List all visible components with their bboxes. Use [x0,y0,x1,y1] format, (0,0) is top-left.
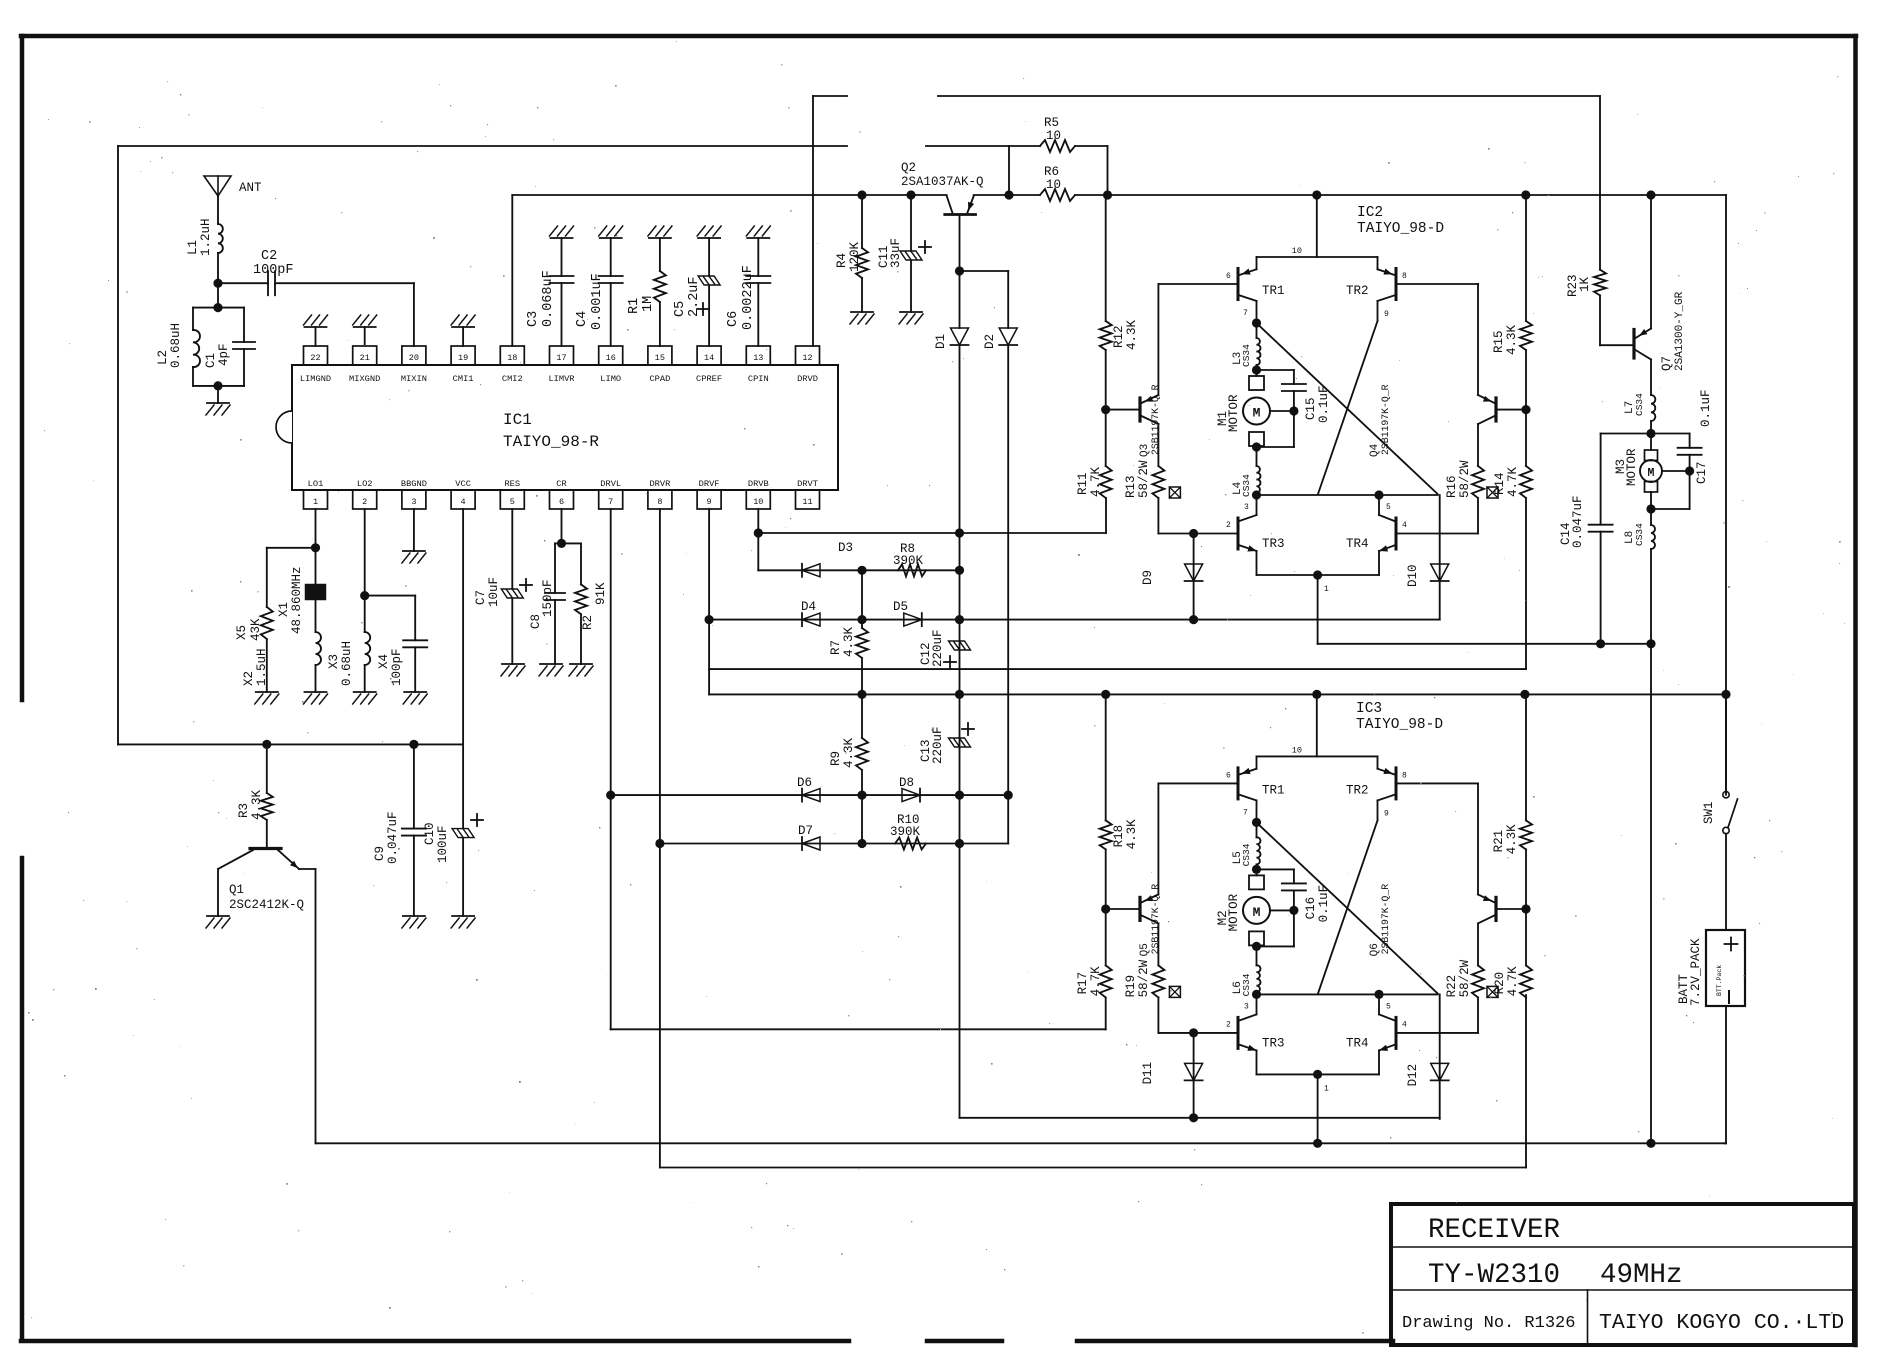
svg-text:49MHz: 49MHz [1600,1260,1683,1291]
svg-text:D9: D9 [1141,570,1155,585]
svg-text:TR3: TR3 [1262,537,1285,551]
svg-text:2: 2 [1226,521,1231,530]
svg-text:CS34: CS34 [1241,973,1252,996]
svg-text:C2: C2 [261,249,277,264]
svg-text:0.047uF: 0.047uF [386,811,400,864]
svg-text:4: 4 [461,497,466,507]
svg-text:R2: R2 [581,615,595,630]
svg-text:BBGND: BBGND [401,479,427,489]
svg-text:4: 4 [1402,1020,1407,1029]
svg-text:TR3: TR3 [1262,1036,1285,1050]
svg-text:13: 13 [753,353,763,363]
svg-text:58/2W: 58/2W [1458,959,1472,997]
svg-text:R1: R1 [627,298,642,314]
svg-text:R17: R17 [1076,972,1090,995]
svg-text:M: M [1648,467,1655,480]
svg-text:R9: R9 [829,751,843,766]
svg-text:R21: R21 [1492,830,1506,853]
svg-text:4.3K: 4.3K [842,737,856,768]
svg-text:MOTOR: MOTOR [1625,448,1639,486]
svg-text:100uF: 100uF [436,825,450,863]
svg-text:CPIN: CPIN [748,374,769,384]
svg-text:9: 9 [707,497,712,507]
svg-text:4.3K: 4.3K [250,789,264,820]
svg-text:4pF: 4pF [217,343,231,366]
svg-text:IC1: IC1 [503,411,532,429]
svg-text:4.7K: 4.7K [1089,966,1103,997]
svg-text:Q2: Q2 [901,161,916,175]
svg-text:LIMO: LIMO [600,374,621,384]
svg-text:19: 19 [458,353,468,363]
svg-text:10: 10 [753,497,763,507]
svg-text:7: 7 [1243,808,1248,817]
svg-text:CS34: CS34 [1241,474,1252,497]
svg-text:220uF: 220uF [931,629,945,667]
svg-text:DRVT: DRVT [797,479,818,489]
svg-text:4.7K: 4.7K [1506,466,1520,497]
svg-text:LO1: LO1 [308,479,324,489]
svg-text:2: 2 [362,497,367,507]
svg-text:0.68uH: 0.68uH [340,641,354,686]
svg-text:DRVL: DRVL [600,479,621,489]
svg-text:Q1: Q1 [229,883,244,897]
svg-text:R15: R15 [1492,330,1506,353]
svg-text:CMI1: CMI1 [453,374,474,384]
svg-text:D12: D12 [1406,1064,1420,1087]
svg-text:4.3K: 4.3K [1505,824,1519,855]
svg-text:1: 1 [313,497,318,507]
svg-text:10: 10 [1046,129,1061,143]
svg-text:C1: C1 [204,353,218,368]
svg-text:R18: R18 [1112,825,1126,848]
svg-text:8: 8 [1402,272,1407,281]
svg-text:VCC: VCC [455,479,471,489]
svg-text:1M: 1M [641,296,656,312]
svg-text:0.68uH: 0.68uH [169,323,183,368]
svg-text:Q7: Q7 [1660,356,1674,371]
svg-text:R22: R22 [1445,975,1459,998]
svg-text:C17: C17 [1695,461,1709,484]
svg-text:D3: D3 [838,541,853,555]
svg-text:14: 14 [704,353,714,363]
svg-text:CR: CR [556,479,566,489]
svg-text:X2: X2 [242,671,256,686]
svg-text:R14: R14 [1493,472,1507,495]
svg-text:D1: D1 [934,334,948,349]
svg-text:D7: D7 [798,824,813,838]
svg-text:0.047uF: 0.047uF [1571,495,1585,548]
svg-text:11: 11 [802,497,812,507]
svg-text:R5: R5 [1044,116,1059,130]
svg-text:R6: R6 [1044,165,1059,179]
svg-text:LIMVR: LIMVR [548,374,574,384]
svg-text:6: 6 [1226,771,1231,780]
svg-text:0.0022uF: 0.0022uF [741,265,756,330]
svg-text:M: M [1253,905,1261,920]
svg-text:10uF: 10uF [487,577,501,607]
svg-text:58/2W: 58/2W [1137,460,1151,498]
svg-text:2.2uF: 2.2uF [687,276,702,317]
svg-text:220uF: 220uF [931,726,945,764]
svg-text:SW1: SW1 [1702,801,1716,824]
svg-text:C15: C15 [1304,397,1318,420]
svg-text:D10: D10 [1406,564,1420,587]
svg-text:C10: C10 [423,822,437,845]
svg-text:4.3K: 4.3K [1505,324,1519,355]
svg-text:TR1: TR1 [1262,284,1285,298]
svg-text:C3: C3 [526,311,541,327]
svg-text:LIMGND: LIMGND [300,374,331,384]
svg-text:3: 3 [1244,1002,1249,1011]
svg-text:2SB1197K-Q_R: 2SB1197K-Q_R [1150,384,1161,455]
svg-text:Drawing No. R1326: Drawing No. R1326 [1402,1314,1575,1333]
svg-text:2SB1197K-Q_R: 2SB1197K-Q_R [1380,884,1391,955]
svg-text:1.5uH: 1.5uH [255,648,269,686]
svg-text:R20: R20 [1493,972,1507,995]
svg-text:0.001uF: 0.001uF [590,273,605,330]
svg-text:6: 6 [559,497,564,507]
svg-text:C5: C5 [673,301,688,317]
svg-text:C7: C7 [474,590,488,605]
svg-text:C16: C16 [1304,897,1318,920]
svg-text:R11: R11 [1076,472,1090,495]
svg-text:IC2: IC2 [1357,205,1383,221]
svg-text:M: M [1253,406,1261,421]
svg-text:RECEIVER: RECEIVER [1428,1215,1560,1246]
svg-text:17: 17 [556,353,566,363]
svg-text:2SB1197K-Q_R: 2SB1197K-Q_R [1380,384,1391,455]
svg-text:10: 10 [1292,246,1302,256]
svg-text:15: 15 [655,353,665,363]
svg-text:5: 5 [1386,503,1391,512]
svg-text:R19: R19 [1124,975,1138,998]
svg-text:LO2: LO2 [357,479,373,489]
svg-text:R3: R3 [237,803,251,818]
svg-text:MOTOR: MOTOR [1227,394,1241,432]
svg-text:DRVF: DRVF [699,479,720,489]
svg-text:4: 4 [1402,521,1407,530]
svg-text:R16: R16 [1445,475,1459,498]
svg-text:18: 18 [507,353,517,363]
svg-text:BTT.Pack: BTT.Pack [1716,965,1723,996]
svg-text:CS34: CS34 [1634,523,1645,546]
svg-text:120K: 120K [848,241,862,272]
svg-text:CS34: CS34 [1634,393,1645,416]
svg-text:L1: L1 [186,240,200,255]
svg-text:1.2uH: 1.2uH [199,218,213,256]
svg-text:D4: D4 [801,600,816,614]
svg-text:8: 8 [657,497,662,507]
svg-text:TR2: TR2 [1346,284,1369,298]
svg-text:100pF: 100pF [253,263,294,278]
svg-text:X4: X4 [377,654,391,669]
svg-text:X1: X1 [277,602,291,617]
svg-text:4.7K: 4.7K [1089,466,1103,497]
svg-text:2SC2412K-Q: 2SC2412K-Q [229,898,304,912]
svg-text:CS34: CS34 [1241,344,1252,367]
svg-text:150pF: 150pF [541,579,555,617]
svg-text:16: 16 [606,353,616,363]
svg-text:390K: 390K [890,825,921,839]
svg-text:CPAD: CPAD [649,374,670,384]
svg-text:C9: C9 [373,846,387,861]
svg-text:X5: X5 [235,625,249,640]
svg-text:C6: C6 [726,311,741,327]
svg-text:7: 7 [1243,309,1248,318]
svg-text:9: 9 [1384,809,1389,818]
svg-text:4.7K: 4.7K [1506,966,1520,997]
svg-text:D2: D2 [983,334,997,349]
svg-text:R7: R7 [829,640,843,655]
svg-text:0.1uF: 0.1uF [1699,389,1713,427]
svg-text:5: 5 [1386,1002,1391,1011]
svg-text:12: 12 [802,353,812,363]
svg-text:D8: D8 [899,776,914,790]
svg-text:58/2W: 58/2W [1137,959,1151,997]
svg-text:ANT: ANT [239,181,262,195]
svg-text:20: 20 [409,353,419,363]
svg-text:3: 3 [1244,503,1249,512]
svg-text:0.1uF: 0.1uF [1317,885,1331,923]
svg-text:RES: RES [504,479,520,489]
svg-text:DRVD: DRVD [797,374,818,384]
svg-text:TR4: TR4 [1346,537,1369,551]
svg-text:22: 22 [310,353,320,363]
svg-text:4.3K: 4.3K [1125,819,1139,850]
svg-text:1: 1 [1324,585,1329,594]
svg-text:0.1uF: 0.1uF [1317,385,1331,423]
svg-text:4.3K: 4.3K [842,626,856,657]
svg-text:58/2W: 58/2W [1458,460,1472,498]
svg-text:10: 10 [1046,178,1061,192]
svg-text:TAIYO KOGYO CO.·LTD: TAIYO KOGYO CO.·LTD [1599,1311,1844,1335]
svg-text:D11: D11 [1141,1062,1155,1085]
svg-text:9: 9 [1384,310,1389,319]
svg-text:CS34: CS34 [1241,843,1252,866]
svg-text:TAIYO_98-R: TAIYO_98-R [503,433,599,451]
svg-text:R13: R13 [1124,475,1138,498]
svg-text:DRVB: DRVB [748,479,769,489]
svg-text:2: 2 [1226,1020,1231,1029]
svg-text:R12: R12 [1112,325,1126,348]
svg-text:DRVR: DRVR [649,479,670,489]
svg-text:D6: D6 [797,776,812,790]
svg-text:21: 21 [360,353,370,363]
svg-text:1: 1 [1324,1084,1329,1093]
svg-text:MIXIN: MIXIN [401,374,427,384]
svg-text:TY-W2310: TY-W2310 [1428,1260,1560,1291]
svg-text:91K: 91K [594,582,608,605]
svg-text:5: 5 [510,497,515,507]
svg-text:TR4: TR4 [1346,1036,1369,1050]
svg-text:1K: 1K [1578,276,1592,292]
svg-text:2SA1300-Y_GR: 2SA1300-Y_GR [1674,291,1686,371]
svg-text:MIXGND: MIXGND [349,374,380,384]
svg-text:MOTOR: MOTOR [1227,893,1241,931]
svg-text:2SA1037AK-Q: 2SA1037AK-Q [901,175,984,189]
svg-text:10: 10 [1292,745,1302,755]
svg-text:TR1: TR1 [1262,783,1285,797]
svg-text:8: 8 [1402,771,1407,780]
svg-text:CMI2: CMI2 [502,374,523,384]
svg-text:100pF: 100pF [390,648,404,686]
svg-text:43K: 43K [249,618,263,641]
svg-text:TAIYO_98-D: TAIYO_98-D [1356,717,1443,733]
svg-text:CPREF: CPREF [696,374,722,384]
svg-text:TR2: TR2 [1346,783,1369,797]
svg-text:X3: X3 [327,654,341,669]
svg-text:D5: D5 [893,600,908,614]
svg-text:48.860MHz: 48.860MHz [290,566,304,634]
svg-text:C4: C4 [575,311,590,327]
svg-text:7.2V_PACK: 7.2V_PACK [1689,938,1703,1006]
svg-text:390K: 390K [893,554,924,568]
svg-text:7: 7 [608,497,613,507]
svg-text:2SB1197K-Q_R: 2SB1197K-Q_R [1150,884,1161,955]
svg-text:R4: R4 [835,253,849,268]
svg-text:6: 6 [1226,272,1231,281]
svg-text:L2: L2 [156,350,170,365]
svg-text:4.3K: 4.3K [1125,319,1139,350]
svg-text:0.068uF: 0.068uF [541,270,556,327]
svg-text:IC3: IC3 [1356,701,1382,717]
svg-text:TAIYO_98-D: TAIYO_98-D [1357,221,1444,237]
svg-text:33uF: 33uF [889,238,903,268]
svg-text:3: 3 [411,497,416,507]
